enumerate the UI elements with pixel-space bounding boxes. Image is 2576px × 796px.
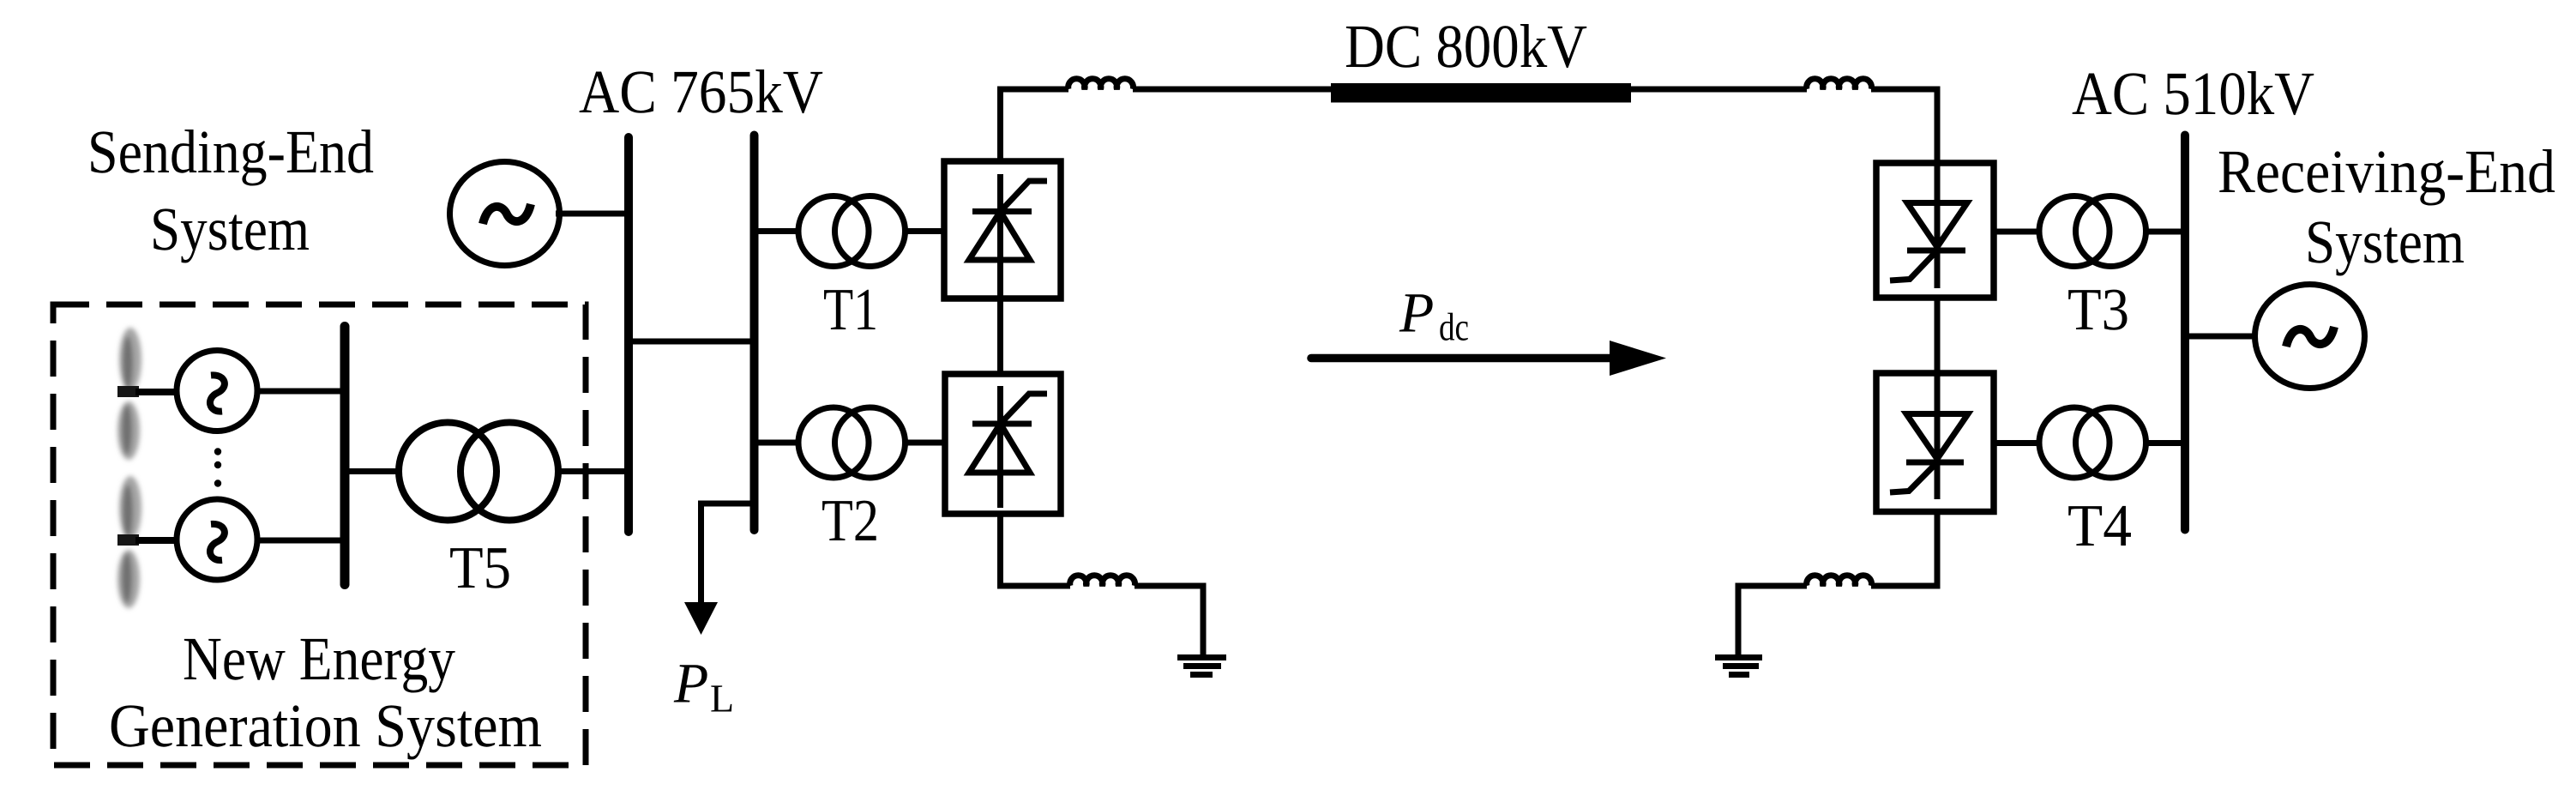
thyristor V2 in U2 [969,386,1047,508]
dashed box: new energy generation system boundary [53,305,586,765]
DC transmission line (thick bar) [1331,83,1631,103]
thyristor V4 in U4 [1890,373,1968,499]
wire U4 bottom to right neutral corner [1871,512,1937,587]
wire WT1 hub to wind generator WG1 [135,389,178,395]
wind generator WG1 [177,351,257,431]
smoothing reactor L4 (bottom right neutral) [1807,576,1872,586]
wire DC line to reactor L2 [1628,87,1807,93]
wire T2 to valve U2 [906,440,945,446]
wire T4 to bus B3 [2146,440,2184,446]
wire bus tie B1-B2 [629,339,755,345]
generator G1 (sending-end system source) [450,162,560,266]
wire L3 to ground GND1 [1135,586,1203,654]
load arrow P_L from bus B2 [684,504,752,635]
svg-text:T1: T1 [823,277,878,343]
wire WG1 to collector bus B4 [257,389,343,395]
wire U1 top to DC line corner [1001,89,1069,161]
smoothing reactor L1 (top left) [1068,79,1134,89]
WG1 rotated tilde [210,375,225,411]
power flow arrow P_dc [1311,341,1666,376]
valve U2 box (rectifier lower) [945,374,1061,514]
smoothing reactor L2 (top right) [1807,79,1872,89]
svg-text:Receiving-End: Receiving-End [2218,137,2555,206]
svg-text:System: System [150,195,310,263]
bus B3 (AC 510kV bar) [2181,136,2189,530]
svg-text:AC 510kV: AC 510kV [2072,59,2314,128]
wind turbine WT1 blades [117,328,141,460]
wire WT2 hub to wind generator WG2 [135,537,178,544]
smoothing reactor L3 (bottom left neutral) [1070,576,1135,586]
ground GND1 [1177,658,1226,675]
transformer T2 [798,407,869,478]
valve U4 box (inverter lower) [1876,373,1994,512]
G2 AC tilde symbol [2286,327,2334,347]
bus B4 (wind farm collector bar) [340,327,350,585]
transformer T4 [2039,407,2110,478]
valve U3 box (inverter upper) [1876,163,1994,298]
generator G2 (receiving-end system source) [2255,285,2365,389]
label P_dc [1399,282,1469,349]
transformer T5 [399,423,497,521]
svg-text:Generation System: Generation System [109,691,542,760]
svg-text:T4: T4 [2067,493,2132,559]
wire U3 to U4 [1935,298,1941,374]
svg-text:P: P [1399,282,1434,345]
ellipsis dots between wind generators [214,448,221,486]
wire U3 to transformer T3 [1994,229,2039,235]
wire U2 bottom to left ground corner [1001,514,1071,586]
svg-text:New Energy: New Energy [183,624,455,693]
thyristor V3 in U3 [1890,163,1967,288]
wire L2 to valve U3 [1871,89,1937,163]
svg-text:System: System [2305,208,2465,276]
svg-text:T3: T3 [2067,277,2129,343]
wire T3 to bus B3 [2146,229,2184,235]
svg-text:P: P [673,653,708,715]
wind generator WG2 [177,499,257,580]
label P_L [673,653,734,721]
wire WG2 to collector bus B4 [257,538,343,544]
svg-text:Sending-End: Sending-End [87,118,374,186]
svg-text:dc: dc [1439,305,1469,349]
transformer T1 [798,196,869,267]
bus B2 (AC 765kV right bar) [750,136,759,531]
wire bus B2 to transformer T2 [755,440,798,446]
svg-text:DC 800kV: DC 800kV [1345,12,1587,81]
wind turbine WT2 blades [117,476,141,608]
wire U4 to transformer T4 [1994,440,2039,446]
thyristor V1 in U1 [969,174,1047,296]
svg-text:L: L [710,677,734,721]
wire bus B3 to generator G2 [2187,334,2258,340]
svg-text:AC 765kV: AC 765kV [579,57,823,126]
G1 AC tilde symbol [483,204,531,224]
wire U1 to U2 [997,298,1003,374]
transformer T3 [2039,196,2110,267]
valve U1 box (rectifier upper) [944,161,1061,298]
wire L4 to ground GND2 [1738,586,1807,654]
bus B1 (AC 765kV left bar) [624,137,633,532]
wire G1 to left AC bus [556,211,627,217]
wire L1 to DC line [1133,87,1334,93]
ground GND2 [1715,658,1762,675]
WG2 rotated tilde [210,524,225,560]
wire T1 to valve U1 [906,228,945,234]
svg-text:T2: T2 [822,488,879,554]
wire T5 to left AC bus B1 [558,468,627,474]
wire bus B4 to transformer T5 [347,468,398,474]
svg-text:T5: T5 [449,535,511,601]
wire bus B2 to transformer T1 [755,228,798,234]
